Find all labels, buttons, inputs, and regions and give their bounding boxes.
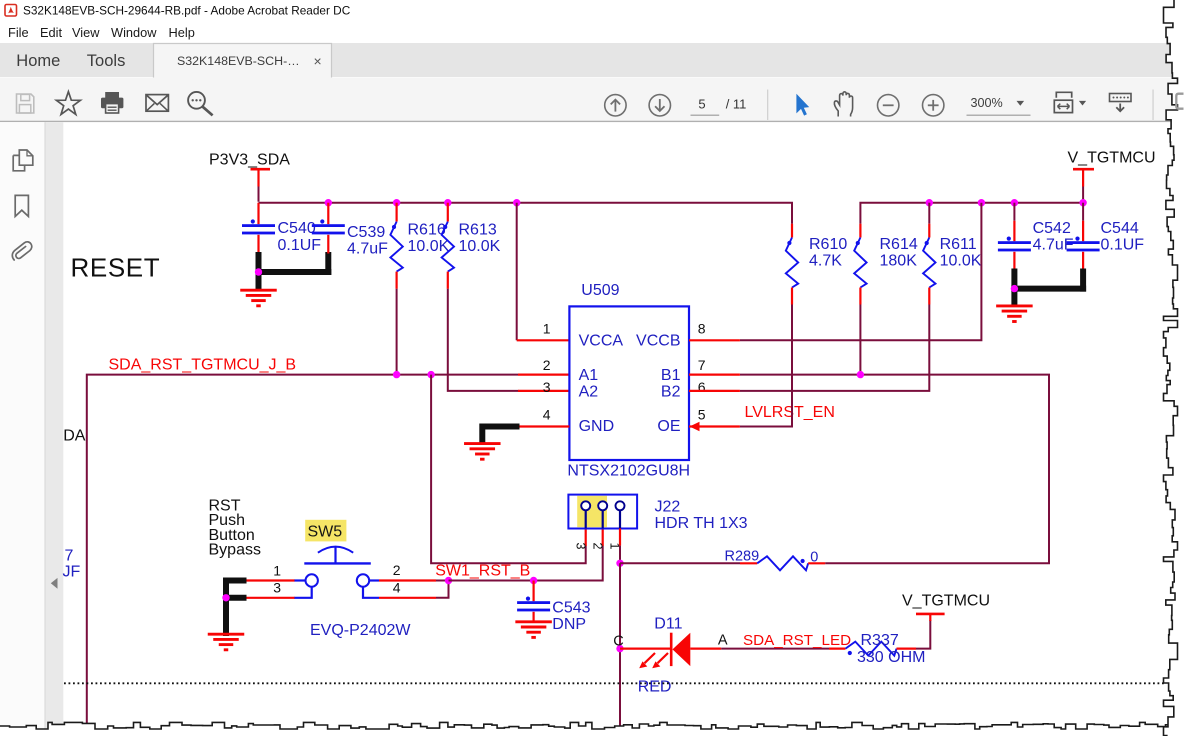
svg-text:RED: RED [638, 679, 672, 696]
ic U509 body [569, 306, 689, 460]
resistor R289 [757, 556, 808, 570]
pin label A2 [579, 384, 599, 401]
net label V_TGTMCU 2 [902, 593, 990, 610]
switch SW5 actuator [304, 547, 371, 565]
label R610 [809, 236, 847, 253]
toolbar band [0, 78, 1188, 121]
wire SW5 pin2 lead [379, 579, 449, 581]
page border dotted line [64, 682, 1164, 684]
left sidebar strip [0, 122, 46, 736]
led D11 symbol [671, 633, 690, 666]
junction dot C544 top [1079, 199, 1086, 206]
toolbar select cursor icon [796, 94, 809, 116]
wire VCCB drop [740, 203, 982, 341]
capacitor C543 [517, 581, 550, 623]
label 4.7uF (C542) [1033, 236, 1074, 253]
pin number 4 [543, 406, 551, 422]
svg-text:Bypass: Bypass [209, 542, 261, 559]
toolbar email icon [146, 95, 168, 112]
label C540 [278, 220, 316, 237]
svg-text:4.7uF: 4.7uF [347, 240, 388, 257]
svg-text:Edit: Edit [40, 25, 62, 40]
label 4.7uF (C539) [347, 240, 388, 257]
clipped label JF [63, 563, 81, 580]
svg-text:6: 6 [698, 379, 706, 395]
wire GND pin lead [518, 425, 569, 427]
junction dot VCCA drop [513, 199, 520, 206]
label R616 [408, 222, 446, 239]
switch SW5 contact left [306, 574, 318, 586]
wire B1 pin lead [689, 374, 740, 376]
label R611 [940, 236, 977, 253]
label 0 (R289) [810, 550, 818, 566]
svg-text:B2: B2 [661, 384, 681, 401]
label R337 [861, 632, 899, 649]
wire SDA_RST_TGTMCU_J_B [87, 375, 518, 728]
toolbar star icon [56, 92, 80, 115]
junction dot SDA at J22 branch [427, 371, 434, 378]
menu View [72, 25, 100, 40]
svg-text:5: 5 [698, 406, 706, 422]
label C542 [1033, 220, 1071, 237]
svg-text:U509: U509 [581, 282, 619, 299]
switch SW5 contact right [357, 574, 369, 586]
svg-text:Help: Help [169, 25, 195, 40]
svg-text:2: 2 [393, 562, 401, 578]
pin label B1 [661, 367, 681, 384]
pin number 1 (J22) [607, 543, 621, 550]
svg-text:180K: 180K [880, 253, 918, 270]
svg-text:4: 4 [543, 406, 551, 422]
svg-text:SDA_RST_TGTMCU_J_B: SDA_RST_TGTMCU_J_B [109, 357, 297, 374]
svg-text:C544: C544 [1101, 220, 1139, 237]
junction dot C542 gnd [1011, 285, 1018, 292]
wire R337 to V_TGTMCU [897, 615, 931, 649]
svg-text:Tools: Tools [87, 52, 126, 70]
svg-text:SDA_RST_LED: SDA_RST_LED [743, 632, 851, 649]
svg-text:330 OHM: 330 OHM [857, 649, 925, 666]
net label SDA_RST_LED [743, 632, 851, 649]
svg-text:R337: R337 [861, 632, 899, 649]
pin number 5 [698, 406, 706, 422]
label A (anode) [718, 633, 728, 649]
wire VCCA drop [517, 203, 570, 341]
svg-text:×: × [314, 53, 322, 69]
svg-text:JF: JF [63, 563, 81, 580]
svg-text:3: 3 [543, 379, 551, 395]
wire B1 to R289 [740, 375, 1049, 564]
svg-text:10.0K: 10.0K [940, 253, 982, 270]
wire SW1_RST_B [449, 528, 603, 580]
svg-text:7: 7 [698, 357, 706, 373]
svg-text:S32K148EVB-SCH-29644-RB.pdf -: S32K148EVB-SCH-29644-RB.pdf - Adobe Acro… [23, 4, 351, 18]
wire V_TGTMCU drop [1082, 171, 1084, 202]
svg-text:LVLRST_EN: LVLRST_EN [745, 404, 835, 421]
toolbar previous page icon [605, 95, 626, 116]
svg-text:S32K148EVB-SCH-…: S32K148EVB-SCH-… [177, 54, 300, 68]
svg-text:GND: GND [579, 418, 615, 435]
capacitor C544 [1067, 203, 1100, 270]
svg-text:4.7K: 4.7K [809, 253, 842, 270]
svg-text:VCCB: VCCB [636, 332, 680, 349]
pin label OE [657, 418, 680, 435]
svg-text:2: 2 [590, 543, 604, 550]
wire SW5 pin1 lead [245, 579, 295, 581]
pin number 3 (J22) [574, 543, 588, 550]
wire VCCB pin lead [689, 339, 740, 341]
junction dot R611 top [926, 199, 933, 206]
svg-text:EVQ-P2402W: EVQ-P2402W [310, 622, 411, 639]
sheet title RESET [71, 253, 161, 283]
svg-text:R610: R610 [809, 236, 847, 253]
pin label VCCB [636, 332, 680, 349]
adobe acrobat app icon [5, 5, 17, 17]
svg-text:View: View [72, 25, 100, 40]
toolbar separator 2 [1152, 90, 1153, 121]
toolbar page number field [691, 97, 747, 116]
svg-text:Home: Home [16, 52, 60, 70]
junction dot C543 tap [530, 577, 537, 584]
toolbar zoom level combo [967, 96, 1031, 116]
label R289 [725, 549, 760, 565]
thick gnd wire SW5 [223, 578, 247, 636]
toolbar hand tool icon [834, 92, 852, 117]
pin number 8 [698, 320, 706, 336]
svg-text:C539: C539 [347, 224, 385, 241]
label SW5 [308, 524, 343, 541]
wire OE lead with arrow [689, 422, 740, 432]
ground symbol under C540 [240, 290, 277, 306]
pin number 2 (SW5) [393, 562, 401, 578]
svg-text:C543: C543 [552, 599, 590, 616]
toolbar zoom out icon [878, 95, 899, 116]
pin number 2 (J22) [590, 543, 604, 550]
menu File [8, 25, 29, 40]
svg-text:A: A [718, 633, 728, 649]
svg-text:HDR TH 1X3: HDR TH 1X3 [655, 515, 748, 532]
sidebar page thumbnails icon [13, 150, 33, 171]
label R613 [459, 222, 497, 239]
svg-text:R613: R613 [459, 222, 497, 239]
net label SW1_RST_B [435, 563, 530, 580]
pin number 7 [698, 357, 706, 373]
svg-text:P3V3_SDA: P3V3_SDA [209, 152, 290, 169]
svg-text:B1: B1 [661, 367, 681, 384]
label 4.7K (R610) [809, 253, 842, 270]
label 180K (R614) [880, 253, 918, 270]
toolbar zoom in icon [923, 95, 944, 116]
torn paper bottom edge [0, 722, 1188, 736]
net label SDA_RST_TGTMCU_J_B [109, 357, 297, 374]
thick gnd wire C542-C544 [1011, 269, 1086, 308]
svg-text:3: 3 [574, 543, 588, 550]
sidebar collapse arrow [51, 578, 58, 589]
svg-text:8: 8 [698, 320, 706, 336]
active document tab [154, 43, 332, 78]
pin number 3 (SW5) [273, 580, 281, 596]
label 0.1UF (C540) [278, 237, 322, 254]
power symbol V_TGTMCU 2 bar [916, 613, 945, 616]
svg-text:0.1UF: 0.1UF [1101, 236, 1145, 253]
thick gnd wire U509 [482, 424, 519, 446]
capacitor C542 [998, 203, 1031, 270]
connector J22 pin3 circle [581, 501, 590, 528]
svg-text:File: File [8, 25, 29, 40]
ground symbol under C543 [515, 622, 552, 638]
highlight J22 pins [577, 496, 607, 527]
svg-text:SW5: SW5 [308, 524, 343, 541]
power symbol P3V3_SDA bar [251, 168, 271, 171]
label J22 [655, 499, 681, 516]
svg-text:/ 11: / 11 [726, 97, 747, 112]
svg-text:VCCA: VCCA [579, 332, 624, 349]
svg-text:R614: R614 [880, 236, 918, 253]
svg-text:1: 1 [273, 562, 281, 578]
connector J22 body [568, 495, 637, 529]
svg-text:2: 2 [543, 357, 551, 373]
svg-text:4: 4 [393, 580, 401, 596]
wire SDA branch to J22 pin3 [431, 375, 586, 564]
svg-text:300%: 300% [971, 96, 1003, 110]
menu Window [111, 25, 157, 40]
wire J22 pin1 drop [619, 528, 621, 563]
wire right supply bus [860, 203, 1083, 224]
svg-text:R611: R611 [940, 236, 977, 253]
svg-text:DA: DA [63, 427, 86, 444]
toolbar save icon (disabled) [17, 94, 34, 113]
resistor R611 [923, 203, 935, 305]
label NTSX2102GU8H [567, 462, 690, 479]
svg-text:R289: R289 [725, 549, 760, 565]
pin label VCCA [579, 332, 624, 349]
active tab label [177, 54, 300, 68]
wire D11 anode [690, 647, 845, 649]
wire A1 pin lead [518, 374, 569, 376]
svg-text:0.1UF: 0.1UF [278, 237, 322, 254]
pin number 1 (SW5) [273, 562, 281, 578]
label C (cathode) [613, 633, 623, 649]
label U509 [581, 282, 619, 299]
junction dot D11 cathode [616, 645, 623, 652]
label C539 [347, 224, 385, 241]
active tab close button [314, 53, 322, 69]
connector J22 pin2 circle [598, 501, 607, 528]
toolbar print icon [101, 92, 123, 113]
capacitor C540 [242, 203, 275, 254]
svg-text:1: 1 [543, 320, 551, 336]
sidebar bookmarks icon [15, 195, 28, 216]
resistor R616 [390, 203, 402, 289]
net label P3V3_SDA [209, 152, 290, 169]
svg-text:7: 7 [65, 547, 74, 564]
menu Edit [40, 25, 62, 40]
pin label GND [579, 418, 615, 435]
net label LVLRST_EN [745, 404, 835, 421]
wire P3V3_SDA power drop [257, 171, 259, 202]
junction dot SW5 gnd [222, 594, 229, 601]
svg-text:A2: A2 [579, 384, 599, 401]
svg-text:3: 3 [273, 580, 281, 596]
toolbar next page icon [649, 95, 670, 116]
tab Home [16, 52, 60, 70]
wire SW5 pin3 lead [245, 597, 295, 599]
wire R616 to SDA net [396, 289, 398, 375]
svg-text:C542: C542 [1033, 220, 1071, 237]
svg-text:R616: R616 [408, 222, 446, 239]
wire J22 pin1 to D11 [619, 563, 621, 727]
pin number 6 [698, 379, 706, 395]
power symbol V_TGTMCU bar [1073, 168, 1094, 171]
connector J22 pin1 circle [616, 501, 625, 528]
led D11 arrows [639, 653, 668, 668]
label D11 [654, 615, 682, 632]
pin number 2 [543, 357, 551, 373]
label 10.0K (R616) [408, 238, 450, 255]
toolbar zoom-tools icon [188, 92, 213, 116]
toolbar hide-toolbars icon [1110, 94, 1132, 112]
label EVQ-P2402W [310, 622, 411, 639]
ground symbol under U509 [464, 444, 501, 460]
svg-text:10.0K: 10.0K [408, 238, 450, 255]
wire R611 to B2 [740, 305, 929, 391]
svg-text:DNP: DNP [552, 616, 586, 633]
switch SW5 blue stubs [294, 581, 379, 598]
junction dot C539 top [325, 199, 332, 206]
junction dot VCCB drop [978, 199, 985, 206]
label 0.1UF (C544) [1101, 236, 1145, 253]
note RST Push Button Bypass [209, 497, 261, 558]
torn paper right edge [1164, 0, 1188, 736]
label C543 [552, 599, 590, 616]
junction dot SDA at R616 [393, 371, 400, 378]
ground symbol under SW5 [208, 634, 245, 650]
svg-text:C540: C540 [278, 220, 316, 237]
junction dot J22 pin1 [616, 560, 623, 567]
wire R614 to B1 [859, 305, 861, 375]
wire B2 pin lead [689, 390, 740, 392]
window title bar [0, 0, 1188, 43]
junction dot C540 gnd [255, 268, 262, 275]
window title text [23, 4, 351, 18]
clipped net label DA [63, 427, 86, 444]
toolbar separator 1 [767, 90, 768, 121]
toolbar bottom border [0, 121, 1188, 123]
svg-text:OE: OE [657, 418, 680, 435]
label 10.0K (R613) [459, 238, 501, 255]
pin number 3 [543, 379, 551, 395]
junction dot R616 top [393, 199, 400, 206]
pin number 4 (SW5) [393, 580, 401, 596]
tab Tools [87, 52, 126, 70]
svg-text:V_TGTMCU: V_TGTMCU [1068, 150, 1156, 167]
junction dot R613 top [444, 199, 451, 206]
pin label A1 [579, 367, 599, 384]
label DNP (C543) [552, 616, 586, 633]
label RED (D11) [638, 679, 672, 696]
resistor R337 [846, 642, 897, 656]
resistor R610 [786, 224, 798, 305]
ground symbol under C542 [996, 306, 1033, 322]
wire left supply bus [259, 203, 793, 224]
label 10.0K (R611) [940, 253, 982, 270]
navigation splitter band [46, 122, 64, 736]
junction dot C542 top [1011, 199, 1018, 206]
svg-text:5: 5 [698, 97, 705, 112]
wire D11 cathode lead [620, 647, 671, 649]
net label V_TGTMCU [1068, 150, 1156, 167]
junction dot SW1 pins [445, 577, 452, 584]
clipped toolbar icon at tear [1176, 94, 1183, 109]
wire SW5 pin4 lead [379, 581, 449, 598]
svg-text:NTSX2102GU8H: NTSX2102GU8H [567, 462, 690, 479]
toolbar fit width icon [1054, 92, 1086, 112]
tab bar [0, 43, 1188, 77]
svg-text:A1: A1 [579, 367, 599, 384]
svg-text:D11: D11 [654, 615, 682, 632]
svg-text:RESET: RESET [71, 253, 161, 283]
resistor R614 [854, 224, 866, 305]
svg-text:Window: Window [111, 25, 157, 40]
capacitor C539 [312, 203, 345, 254]
wire R289 right [808, 562, 825, 564]
clipped label 7 [65, 547, 74, 564]
svg-text:V_TGTMCU: V_TGTMCU [902, 593, 990, 610]
svg-text:J22: J22 [655, 499, 681, 516]
highlight SW5 [305, 520, 346, 542]
junction dot B1 at R614 [857, 371, 864, 378]
menu Help [169, 25, 195, 40]
label 330 OHM (R337) [857, 649, 925, 666]
sidebar attachments icon [12, 242, 31, 260]
label HDR TH 1X3 [655, 515, 748, 532]
wire R613 to A2 pin [448, 289, 570, 391]
wire R289 left [620, 562, 757, 564]
label C544 [1101, 220, 1139, 237]
pin number 1 [543, 320, 551, 336]
wire R610 to OE [740, 305, 792, 427]
resistor R613 [442, 203, 454, 289]
label R614 [880, 236, 918, 253]
thick gnd wire C540-C539 [256, 252, 332, 292]
svg-text:10.0K: 10.0K [459, 238, 501, 255]
svg-text:C: C [613, 633, 623, 649]
pin label B2 [661, 384, 681, 401]
